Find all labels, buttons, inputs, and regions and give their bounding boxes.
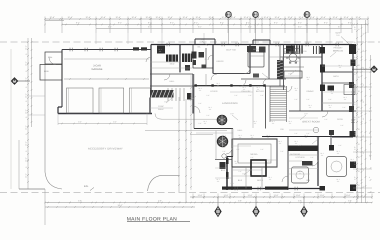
svg-text:12'-4": 12'-4"	[25, 125, 28, 130]
svg-text:9'-2": 9'-2"	[348, 22, 352, 25]
svg-text:2'-6": 2'-6"	[206, 94, 210, 97]
svg-text:2'-6": 2'-6"	[260, 94, 264, 97]
svg-text:BED 1: BED 1	[253, 48, 260, 51]
svg-text:12'-4": 12'-4"	[230, 16, 235, 19]
svg-text:11': 11'	[362, 117, 365, 120]
svg-text:A1.1: A1.1	[216, 82, 219, 85]
svg-text:DN: DN	[281, 128, 284, 131]
svg-text:2'-6": 2'-6"	[198, 102, 202, 105]
svg-text:11'-6": 11'-6"	[346, 194, 351, 197]
svg-text:6'-1": 6'-1"	[108, 26, 112, 29]
svg-text:2'-6": 2'-6"	[294, 98, 298, 101]
svg-text:11'-6": 11'-6"	[248, 194, 253, 197]
svg-text:TYP.: TYP.	[164, 101, 168, 104]
svg-text:A1.1: A1.1	[336, 150, 339, 153]
svg-text:A1.1: A1.1	[242, 86, 245, 89]
svg-text:BA: BA	[198, 46, 201, 49]
svg-text:9'-2": 9'-2"	[324, 22, 328, 25]
svg-text:9': 9'	[26, 86, 28, 89]
svg-text:6'-1": 6'-1"	[148, 26, 152, 29]
svg-text:A1.1: A1.1	[271, 120, 274, 123]
svg-text:A1.1: A1.1	[298, 170, 301, 173]
svg-text:A1.1: A1.1	[272, 90, 275, 93]
svg-text:A1.1: A1.1	[234, 160, 237, 163]
svg-text:A1.1: A1.1	[266, 134, 269, 137]
svg-text:BA 2: BA 2	[221, 169, 226, 172]
svg-text:11'-6": 11'-6"	[296, 194, 301, 197]
svg-text:KITCHEN: KITCHEN	[296, 156, 305, 159]
svg-text:8': 8'	[358, 128, 360, 131]
svg-text:8': 8'	[358, 143, 360, 146]
svg-text:12'-4": 12'-4"	[25, 141, 28, 146]
svg-text:6'-1": 6'-1"	[338, 26, 342, 29]
svg-text:2'-6": 2'-6"	[338, 144, 342, 147]
svg-text:12'-4": 12'-4"	[343, 16, 348, 19]
svg-text:6'-1": 6'-1"	[298, 26, 302, 29]
svg-text:12'-4": 12'-4"	[131, 16, 136, 19]
svg-text:A1.1: A1.1	[308, 104, 311, 107]
svg-text:8': 8'	[358, 116, 360, 119]
svg-text:GARAGE: GARAGE	[91, 68, 102, 71]
svg-text:5'-8": 5'-8"	[298, 200, 302, 203]
svg-text:4': 4'	[369, 176, 371, 179]
svg-text:12'-4": 12'-4"	[25, 45, 28, 50]
svg-text:GREAT ROOM: GREAT ROOM	[302, 121, 320, 124]
svg-text:A1.1: A1.1	[198, 87, 201, 90]
svg-text:MEDIA: MEDIA	[251, 153, 258, 156]
svg-text:HALL: HALL	[169, 80, 175, 83]
svg-text:8': 8'	[358, 76, 360, 79]
svg-text:TYP.: TYP.	[266, 76, 270, 79]
svg-text:BA 3: BA 3	[238, 179, 243, 182]
svg-text:A1.1: A1.1	[256, 86, 259, 89]
svg-text:12'-4": 12'-4"	[320, 16, 325, 19]
svg-text:TYP.: TYP.	[230, 113, 234, 116]
svg-text:BON.: BON.	[44, 70, 49, 73]
svg-text:9'-2": 9'-2"	[246, 22, 250, 25]
svg-text:A1.1: A1.1	[278, 140, 281, 143]
svg-text:9'-2": 9'-2"	[298, 22, 302, 25]
svg-text:KITCHEN: KITCHEN	[290, 60, 299, 63]
svg-text:12'-4": 12'-4"	[243, 16, 248, 19]
svg-text:8': 8'	[358, 48, 360, 51]
svg-text:MUD: MUD	[170, 63, 175, 66]
svg-text:A1.1: A1.1	[216, 178, 219, 181]
svg-text:12'-4": 12'-4"	[25, 93, 28, 98]
svg-text:A1.1: A1.1	[306, 76, 309, 79]
svg-text:TYP.: TYP.	[334, 50, 338, 53]
svg-text:9'-6": 9'-6"	[354, 116, 357, 120]
svg-text:9'-0": 9'-0"	[78, 121, 82, 124]
svg-text:2'-6": 2'-6"	[222, 150, 226, 153]
svg-text:2'-6": 2'-6"	[268, 160, 272, 163]
svg-text:9'-2": 9'-2"	[170, 22, 174, 25]
svg-text:2'-6": 2'-6"	[260, 148, 264, 151]
svg-text:BATH: BATH	[333, 75, 339, 78]
svg-text:9'-6": 9'-6"	[354, 161, 357, 165]
svg-text:12'-4": 12'-4"	[263, 16, 268, 19]
svg-text:2'-6": 2'-6"	[342, 106, 346, 109]
svg-text:5'-8": 5'-8"	[158, 200, 162, 203]
svg-text:2'-6": 2'-6"	[328, 98, 332, 101]
svg-text:2'-6": 2'-6"	[294, 132, 298, 135]
svg-text:6'-1": 6'-1"	[248, 26, 252, 29]
svg-text:11': 11'	[362, 151, 365, 154]
svg-text:TYP.: TYP.	[288, 73, 292, 76]
svg-text:DINING: DINING	[307, 90, 314, 93]
svg-text:PRIMARY: PRIMARY	[333, 47, 343, 50]
svg-text:TYP.: TYP.	[188, 99, 192, 102]
svg-text:EG.: EG.	[84, 185, 89, 188]
svg-text:9'-2": 9'-2"	[274, 22, 278, 25]
svg-text:LANDSCAPE: LANDSCAPE	[222, 102, 238, 105]
svg-text:TYP.: TYP.	[200, 39, 204, 42]
svg-text:5'-8": 5'-8"	[238, 200, 242, 203]
svg-text:A1.1: A1.1	[288, 120, 291, 123]
svg-text:2'-6": 2'-6"	[310, 156, 314, 159]
svg-text:A1.1: A1.1	[253, 120, 256, 123]
svg-text:11': 11'	[362, 100, 365, 103]
svg-text:2'-6": 2'-6"	[234, 94, 238, 97]
svg-text:FOYER: FOYER	[211, 90, 218, 93]
svg-text:12'-4": 12'-4"	[208, 16, 213, 19]
svg-text:A1.1: A1.1	[338, 64, 341, 67]
svg-text:TYP.: TYP.	[336, 34, 340, 37]
svg-text:12'-4": 12'-4"	[182, 16, 187, 19]
svg-text:5'-8": 5'-8"	[348, 200, 352, 203]
svg-text:8': 8'	[358, 184, 360, 187]
svg-text:WALK: WALK	[158, 108, 164, 111]
svg-text:2'-6": 2'-6"	[306, 132, 310, 135]
svg-text:A1.1: A1.1	[336, 178, 339, 181]
svg-text:A1.1: A1.1	[294, 87, 297, 90]
svg-text:9'-6": 9'-6"	[354, 86, 357, 90]
svg-text:8': 8'	[358, 64, 360, 67]
svg-text:11': 11'	[362, 134, 365, 137]
svg-text:9': 9'	[26, 53, 28, 56]
svg-text:11': 11'	[362, 185, 365, 188]
svg-text:A1.1: A1.1	[268, 176, 271, 179]
svg-text:9'-6": 9'-6"	[354, 56, 357, 60]
svg-text:11': 11'	[362, 168, 365, 171]
svg-text:A1.1: A1.1	[208, 106, 211, 109]
svg-text:OFFICE: OFFICE	[216, 60, 224, 63]
svg-text:2'-6": 2'-6"	[206, 114, 210, 117]
svg-text:TYP.: TYP.	[304, 113, 308, 116]
svg-text:12'-4": 12'-4"	[100, 16, 105, 19]
svg-text:9'-0": 9'-0"	[113, 121, 117, 124]
svg-text:2'-6": 2'-6"	[340, 124, 344, 127]
svg-text:TYP.: TYP.	[316, 137, 320, 140]
svg-text:2'-6": 2'-6"	[298, 144, 302, 147]
svg-text:PATIO: PATIO	[337, 118, 343, 121]
svg-text:2'-6": 2'-6"	[198, 122, 202, 125]
svg-text:CONC: CONC	[158, 105, 164, 108]
svg-text:A1.1: A1.1	[343, 96, 346, 99]
svg-text:8': 8'	[358, 90, 360, 93]
svg-text:9'-6": 9'-6"	[354, 131, 357, 135]
svg-text:2'-6": 2'-6"	[324, 118, 328, 121]
svg-text:2'-6": 2'-6"	[280, 150, 284, 153]
svg-text:2'-6": 2'-6"	[250, 156, 254, 159]
svg-text:A1.1: A1.1	[328, 104, 331, 107]
svg-text:A1.1: A1.1	[222, 134, 225, 137]
svg-text:8': 8'	[358, 156, 360, 159]
svg-text:A1.1: A1.1	[203, 120, 206, 123]
svg-text:CL: CL	[205, 58, 208, 61]
svg-text:ACCESSORY DRIVEWAY: ACCESSORY DRIVEWAY	[88, 148, 123, 151]
svg-text:9': 9'	[26, 150, 28, 153]
svg-text:12'-4": 12'-4"	[25, 77, 28, 82]
svg-text:8': 8'	[358, 170, 360, 173]
svg-text:A1.1: A1.1	[294, 140, 297, 143]
svg-text:8': 8'	[358, 28, 360, 31]
svg-text:11': 11'	[362, 66, 365, 69]
svg-text:9'-6": 9'-6"	[354, 101, 357, 105]
svg-text:9'-6": 9'-6"	[354, 41, 357, 45]
svg-text:9'-6": 9'-6"	[354, 71, 357, 75]
svg-text:A1.1: A1.1	[320, 152, 323, 155]
svg-text:A1.1: A1.1	[350, 158, 353, 161]
svg-text:BA.: BA.	[185, 69, 189, 72]
svg-text:A1.1: A1.1	[238, 134, 241, 137]
svg-text:9': 9'	[26, 100, 28, 103]
svg-text:9'-6": 9'-6"	[354, 176, 357, 180]
svg-text:BED 3: BED 3	[257, 179, 264, 182]
svg-text:11': 11'	[362, 49, 365, 52]
svg-text:12'-4": 12'-4"	[25, 61, 28, 66]
svg-text:9'-2": 9'-2"	[194, 22, 198, 25]
svg-text:6'-1": 6'-1"	[198, 26, 202, 29]
svg-text:PAN.: PAN.	[48, 56, 53, 59]
svg-text:12'-4": 12'-4"	[25, 109, 28, 114]
svg-text:12'-4": 12'-4"	[298, 16, 303, 19]
svg-text:DN: DN	[304, 50, 307, 53]
svg-text:SPA: SPA	[306, 179, 311, 182]
svg-text:A1.1: A1.1	[250, 134, 253, 137]
svg-text:5'-8": 5'-8"	[78, 200, 82, 203]
svg-text:12'-4": 12'-4"	[332, 16, 337, 19]
svg-text:11': 11'	[362, 32, 365, 35]
svg-text:11'-6": 11'-6"	[198, 194, 203, 197]
svg-text:11': 11'	[362, 83, 365, 86]
svg-text:9': 9'	[26, 116, 28, 119]
svg-text:9'-6": 9'-6"	[354, 146, 357, 150]
svg-text:12'-4": 12'-4"	[25, 173, 28, 178]
svg-text:HALL: HALL	[237, 129, 243, 132]
svg-text:12'-4": 12'-4"	[25, 157, 28, 162]
svg-text:12'-4": 12'-4"	[274, 16, 279, 19]
svg-text:TYP.: TYP.	[242, 173, 246, 176]
svg-text:GOLF SIM.: GOLF SIM.	[226, 49, 237, 52]
svg-text:2'-6": 2'-6"	[248, 94, 252, 97]
svg-text:8': 8'	[358, 106, 360, 109]
svg-text:2'-6": 2'-6"	[306, 98, 310, 101]
svg-text:9'-2": 9'-2"	[118, 22, 122, 25]
svg-text:OUTDOOR: OUTDOOR	[290, 153, 301, 156]
svg-text:9'-6": 9'-6"	[354, 26, 357, 30]
